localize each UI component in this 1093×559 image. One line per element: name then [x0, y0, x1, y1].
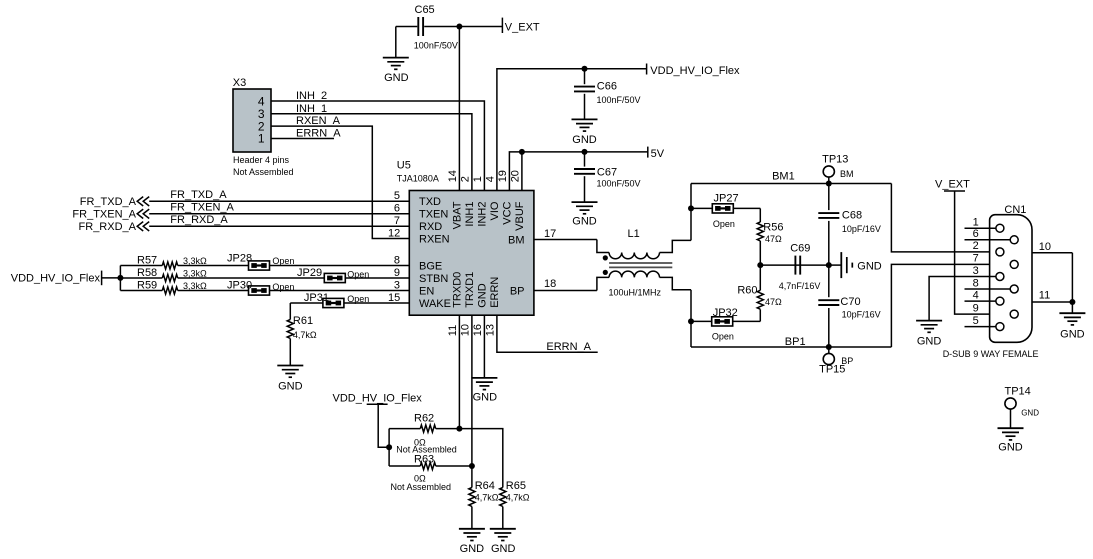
svg-text:D-SUB 9 WAY FEMALE: D-SUB 9 WAY FEMALE: [943, 349, 1039, 359]
ground (right-pointing): [829, 252, 882, 278]
node FR_RXD_A chevron: [79, 221, 150, 233]
ground: [572, 119, 598, 145]
junction: [117, 275, 123, 281]
pin 9: [973, 302, 1019, 318]
jumper JP32: [712, 307, 738, 342]
ground: [916, 321, 942, 348]
svg-text:INH2: INH2: [476, 202, 488, 227]
wire BM: [534, 239, 597, 241]
svg-text:BP: BP: [510, 286, 525, 298]
svg-text:BP: BP: [841, 356, 853, 366]
svg-text:100nF/50V: 100nF/50V: [414, 41, 458, 51]
svg-text:5V: 5V: [651, 148, 665, 160]
capacitor C69: [779, 243, 821, 291]
svg-text:R59: R59: [137, 279, 157, 291]
pin 4: [965, 289, 1004, 305]
svg-text:FR_RXD_A: FR_RXD_A: [170, 214, 228, 226]
svg-text:ERRN_A: ERRN_A: [546, 341, 591, 353]
svg-text:GND: GND: [491, 543, 516, 555]
svg-text:FR_TXD_A: FR_TXD_A: [170, 189, 227, 201]
svg-text:FR_TXEN_A: FR_TXEN_A: [170, 202, 234, 214]
junction: [456, 426, 462, 432]
wire: [424, 26, 502, 28]
node FR_TXD_A chevron: [80, 196, 149, 208]
wire: [828, 308, 830, 347]
svg-text:R57: R57: [137, 254, 157, 266]
svg-text:TP14: TP14: [1005, 385, 1031, 397]
junction: [386, 444, 392, 450]
svg-text:WAKE: WAKE: [419, 298, 451, 310]
resistor R61: [287, 315, 317, 340]
resistor R64: [469, 480, 499, 507]
svg-text:47Ω: 47Ω: [765, 297, 782, 307]
svg-text:BM: BM: [840, 169, 854, 179]
connector X3: [233, 77, 294, 177]
svg-text:JP31: JP31: [304, 292, 329, 304]
svg-text:Open: Open: [347, 269, 369, 279]
svg-text:9: 9: [394, 267, 400, 279]
svg-text:C68: C68: [842, 210, 862, 222]
svg-text:100nF/50V: 100nF/50V: [597, 95, 641, 105]
ground: [490, 529, 516, 555]
svg-text:Open: Open: [272, 282, 294, 292]
node VDD_HV_IO_Flex terminal: [11, 271, 102, 286]
junction: [688, 318, 694, 324]
jumper JP27: [712, 193, 738, 229]
wire INH_2: [271, 90, 484, 191]
svg-text:TJA1080A: TJA1080A: [397, 174, 439, 184]
wire: [690, 184, 692, 241]
junction: [582, 66, 588, 72]
svg-text:X3: X3: [233, 77, 246, 89]
wire EN row: [120, 290, 162, 292]
wire VBUF riser: [521, 152, 523, 191]
svg-text:100uH/1MHz: 100uH/1MHz: [609, 287, 662, 297]
ground: [277, 366, 303, 393]
svg-text:ERRN_A: ERRN_A: [296, 128, 341, 140]
svg-text:STBN: STBN: [419, 273, 448, 285]
junction: [519, 149, 525, 155]
svg-text:RXEN: RXEN: [419, 234, 450, 246]
capacitor C70: [818, 296, 880, 320]
svg-text:10pF/16V: 10pF/16V: [842, 224, 881, 234]
wire TRXD0 drop: [458, 315, 460, 428]
pin 3: [929, 265, 1004, 321]
svg-text:BM1: BM1: [772, 171, 795, 183]
svg-text:1: 1: [973, 217, 979, 229]
wire: [502, 507, 504, 529]
test point TP15: [819, 347, 853, 375]
resistor R57: [137, 254, 207, 269]
svg-text:JP30: JP30: [227, 279, 252, 291]
svg-text:10pF/16V: 10pF/16V: [842, 310, 881, 320]
svg-text:7: 7: [973, 253, 979, 265]
svg-text:11: 11: [1039, 290, 1050, 302]
svg-text:C65: C65: [415, 4, 435, 16]
wire: [584, 152, 586, 167]
svg-text:10: 10: [1039, 241, 1051, 253]
svg-text:GND: GND: [1021, 408, 1039, 417]
svg-text:R56: R56: [763, 221, 783, 233]
svg-text:C66: C66: [597, 81, 617, 93]
junction: [826, 262, 832, 268]
wire bus: [119, 266, 121, 291]
svg-text:GND: GND: [998, 441, 1023, 453]
svg-text:VBAT: VBAT: [452, 201, 464, 229]
svg-text:8: 8: [973, 277, 979, 289]
wire STBN row: [120, 277, 162, 279]
wire JP32 row: [691, 320, 760, 322]
pin 11: [1032, 290, 1072, 302]
svg-text:GND: GND: [278, 380, 303, 392]
inductor L1: [597, 228, 691, 297]
pin 6: [965, 228, 1019, 244]
wire: [584, 176, 586, 202]
wire FR_RXD_A: [149, 214, 409, 226]
wire BM1 line: [691, 171, 891, 184]
svg-text:BP1: BP1: [785, 336, 806, 348]
svg-text:1: 1: [258, 132, 265, 146]
svg-text:18: 18: [544, 278, 556, 290]
wire: [759, 208, 761, 222]
svg-text:Header 4 pins: Header 4 pins: [233, 155, 290, 165]
wire WAKE row: [290, 302, 409, 304]
svg-text:RXD: RXD: [419, 221, 442, 233]
pin 2: [973, 240, 1004, 256]
junction: [826, 181, 832, 187]
pin 8: [965, 277, 1019, 293]
node V_EXT terminal: [935, 179, 1010, 314]
capacitor C65: [414, 4, 458, 50]
node 5V terminal: [648, 147, 665, 160]
svg-text:GND: GND: [857, 260, 882, 272]
svg-text:V_EXT: V_EXT: [935, 179, 970, 191]
svg-text:C69: C69: [790, 243, 810, 255]
resistor R60: [737, 284, 782, 309]
svg-text:U5: U5: [397, 160, 411, 172]
svg-text:1: 1: [472, 176, 484, 182]
wire to DSUB pin7: [891, 264, 1010, 347]
svg-text:VDD_HV_IO_Flex: VDD_HV_IO_Flex: [333, 393, 423, 405]
wire: [828, 221, 830, 297]
capacitor C68: [818, 210, 881, 234]
svg-text:4,7kΩ: 4,7kΩ: [475, 492, 499, 502]
jumper JP29: [297, 267, 369, 282]
wire: [584, 94, 586, 120]
svg-text:2: 2: [459, 176, 471, 182]
wire VBAT riser: [458, 27, 460, 191]
svg-text:Open: Open: [272, 256, 294, 266]
svg-text:VCC: VCC: [501, 201, 513, 224]
svg-text:10: 10: [459, 324, 471, 336]
wire: [1071, 253, 1073, 313]
resistor R65: [500, 480, 530, 507]
svg-text:19: 19: [497, 170, 509, 182]
wire: [759, 265, 761, 290]
resistor R58: [137, 267, 207, 282]
pin 10: [1032, 241, 1072, 253]
svg-text:16: 16: [472, 324, 484, 336]
wire to DSUB pin2: [891, 184, 996, 252]
wire GND pin drop: [483, 315, 485, 378]
pin 7: [973, 253, 1019, 269]
svg-text:11: 11: [447, 325, 459, 336]
wire TRXD1 drop: [471, 315, 473, 466]
wire: [509, 152, 647, 191]
svg-text:6: 6: [394, 203, 400, 215]
op-amp U5 body: [397, 160, 534, 316]
svg-text:R65: R65: [506, 480, 526, 492]
ground: [572, 202, 598, 228]
pin 5: [965, 315, 1004, 331]
pin 1: [965, 217, 1004, 233]
wire RXEN_A: [271, 115, 409, 238]
node V_EXT terminal: [502, 18, 540, 34]
wire R62 row: [389, 428, 420, 430]
svg-text:Open: Open: [347, 294, 369, 304]
svg-text:Not Assembled: Not Assembled: [391, 482, 452, 492]
svg-text:4: 4: [973, 289, 979, 301]
svg-text:5: 5: [973, 315, 979, 327]
svg-text:4,7kΩ: 4,7kΩ: [293, 330, 317, 340]
svg-text:JP32: JP32: [713, 307, 738, 319]
svg-text:VDD_HV_IO_Flex: VDD_HV_IO_Flex: [11, 272, 101, 284]
svg-text:VBUF: VBUF: [514, 201, 526, 231]
svg-text:GND: GND: [384, 72, 409, 84]
svg-text:GND: GND: [572, 216, 597, 228]
ground: [459, 529, 485, 555]
svg-text:R64: R64: [475, 480, 495, 492]
svg-text:4: 4: [484, 176, 496, 182]
junction: [456, 24, 462, 30]
svg-text:R61: R61: [293, 315, 313, 327]
junction: [582, 149, 588, 155]
svg-text:TP13: TP13: [822, 154, 848, 166]
capacitor C67: [574, 166, 641, 188]
svg-text:BGE: BGE: [419, 261, 442, 273]
svg-text:R60: R60: [737, 284, 757, 296]
svg-text:VIO: VIO: [489, 201, 501, 220]
svg-text:FR_TXD_A: FR_TXD_A: [80, 196, 137, 208]
svg-text:L1: L1: [628, 228, 640, 240]
svg-text:47Ω: 47Ω: [765, 234, 782, 244]
capacitor C66: [574, 81, 641, 105]
wire left bus: [388, 429, 390, 466]
wire: [497, 69, 647, 191]
wire FR_TXEN_A: [149, 202, 409, 214]
svg-text:Open: Open: [713, 219, 735, 229]
svg-text:13: 13: [484, 324, 496, 336]
jumper JP31: [304, 292, 369, 308]
svg-text:8: 8: [394, 255, 400, 267]
resistor R56: [757, 221, 783, 244]
junction: [826, 344, 832, 350]
svg-text:CN1: CN1: [1004, 204, 1026, 216]
junction: [1069, 299, 1075, 305]
resistor R62: [396, 413, 457, 455]
svg-text:5: 5: [394, 190, 400, 202]
svg-text:JP28: JP28: [227, 253, 252, 265]
svg-text:6: 6: [973, 228, 979, 240]
svg-text:3,3kΩ: 3,3kΩ: [183, 256, 207, 266]
jumper JP28: [227, 253, 294, 271]
svg-text:GND: GND: [917, 336, 942, 348]
wire BP1 line: [691, 336, 891, 348]
resistor R63: [391, 454, 452, 492]
svg-text:INH_1: INH_1: [296, 103, 327, 115]
svg-text:3,3kΩ: 3,3kΩ: [183, 269, 207, 279]
ground: [1059, 313, 1085, 340]
wire BGE row: [120, 265, 162, 267]
svg-text:100nF/50V: 100nF/50V: [597, 179, 641, 189]
node VDD_HV_IO_Flex terminal: [647, 64, 740, 78]
svg-text:R62: R62: [414, 413, 434, 425]
ground: [383, 58, 409, 84]
ground: [998, 428, 1024, 453]
wire BP: [534, 290, 597, 292]
svg-text:GND: GND: [477, 283, 489, 308]
svg-text:12: 12: [388, 228, 400, 240]
ground: [471, 378, 497, 404]
wire: [396, 26, 418, 28]
svg-text:FR_RXD_A: FR_RXD_A: [79, 221, 137, 233]
svg-text:TRXD1: TRXD1: [464, 272, 476, 308]
connector CN1 body: [943, 204, 1039, 359]
junction: [757, 262, 763, 268]
svg-text:C67: C67: [597, 166, 617, 178]
svg-text:C70: C70: [840, 296, 860, 308]
svg-text:3,3kΩ: 3,3kΩ: [183, 281, 207, 291]
wire JP27 row: [691, 207, 760, 209]
junction: [688, 205, 694, 211]
svg-text:R63: R63: [414, 454, 434, 466]
junction: [469, 463, 475, 469]
svg-text:TRXD0: TRXD0: [452, 272, 464, 308]
svg-text:INH1: INH1: [464, 202, 476, 227]
svg-text:7: 7: [394, 215, 400, 227]
svg-text:ERRN: ERRN: [489, 277, 501, 308]
jumper JP30: [227, 279, 294, 295]
wire R61 drop: [289, 303, 291, 320]
svg-text:4,7kΩ: 4,7kΩ: [506, 492, 530, 502]
test point TP14: [1005, 385, 1040, 428]
wire: [395, 27, 397, 58]
svg-text:VDD_HV_IO_Flex: VDD_HV_IO_Flex: [650, 65, 740, 77]
wire R63 row: [389, 465, 420, 467]
svg-text:GND: GND: [460, 543, 485, 555]
svg-text:14: 14: [447, 170, 459, 182]
svg-text:15: 15: [388, 292, 400, 304]
svg-text:JP27: JP27: [714, 193, 739, 205]
wire: [584, 69, 586, 85]
svg-text:V_EXT: V_EXT: [505, 22, 540, 34]
wire: [690, 290, 692, 347]
node FR_TXEN_A chevron: [72, 208, 149, 220]
wire INH_1: [271, 103, 472, 191]
svg-text:3: 3: [394, 280, 400, 292]
wire FR_TXD_A: [149, 189, 409, 201]
wire: [102, 277, 121, 279]
wire center column: [828, 184, 830, 211]
svg-text:2: 2: [973, 240, 979, 252]
svg-text:17: 17: [544, 228, 556, 240]
svg-text:TXD: TXD: [419, 196, 441, 208]
svg-text:INH_2: INH_2: [296, 90, 327, 102]
svg-text:JP29: JP29: [297, 267, 322, 279]
svg-text:Not Assembled: Not Assembled: [233, 167, 294, 177]
svg-text:TXEN: TXEN: [419, 209, 448, 221]
test point TP13: [822, 154, 853, 184]
svg-text:EN: EN: [419, 286, 434, 298]
wire R64 drop: [471, 466, 473, 488]
node VDD_HV_IO_Flex terminal: [333, 393, 423, 448]
svg-text:GND: GND: [1060, 328, 1085, 340]
svg-text:R58: R58: [137, 267, 157, 279]
svg-text:GND: GND: [572, 134, 597, 146]
svg-text:FR_TXEN_A: FR_TXEN_A: [72, 208, 136, 220]
svg-text:9: 9: [973, 302, 979, 314]
svg-text:3: 3: [973, 265, 979, 277]
wire C69 row: [760, 264, 829, 266]
wire ERRN_A stub: [271, 128, 341, 140]
svg-text:GND: GND: [473, 392, 498, 404]
svg-text:4,7nF/16V: 4,7nF/16V: [779, 281, 821, 291]
wire ERRN_A net: [497, 315, 598, 353]
svg-text:Open: Open: [712, 331, 734, 341]
resistor R59: [137, 279, 207, 294]
svg-text:BM: BM: [508, 235, 525, 247]
svg-text:RXEN_A: RXEN_A: [296, 115, 341, 127]
svg-text:20: 20: [509, 170, 521, 182]
